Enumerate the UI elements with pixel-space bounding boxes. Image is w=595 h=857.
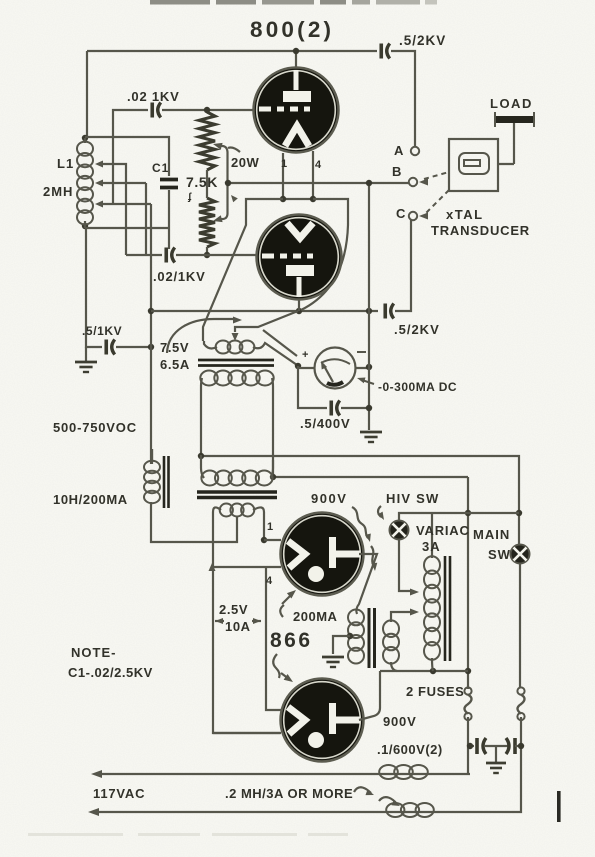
svg-text:10A: 10A: [225, 619, 251, 634]
svg-text:MAIN: MAIN: [473, 527, 510, 542]
svg-text:C1-.02/2.5KV: C1-.02/2.5KV: [68, 665, 153, 680]
svg-text:A: A: [394, 143, 404, 158]
svg-text:.5/2KV: .5/2KV: [399, 33, 446, 48]
svg-text:.5/400V: .5/400V: [300, 416, 350, 431]
svg-text:HIV SW: HIV SW: [386, 491, 439, 506]
svg-text:.5/2KV: .5/2KV: [394, 322, 440, 337]
svg-text:1: 1: [281, 158, 287, 170]
svg-text:900V: 900V: [383, 714, 417, 729]
svg-text:-0-300MA DC: -0-300MA DC: [378, 380, 457, 394]
svg-text:xTAL: xTAL: [446, 207, 484, 222]
svg-text:1: 1: [267, 521, 273, 533]
svg-text:L1: L1: [57, 156, 74, 171]
svg-text:7.5K: 7.5K: [186, 174, 218, 190]
svg-text:7.5V: 7.5V: [160, 340, 189, 355]
svg-text:C1: C1: [152, 161, 169, 175]
svg-text:800(2): 800(2): [250, 17, 334, 42]
svg-text:2.5V: 2.5V: [219, 602, 248, 617]
svg-text:4: 4: [315, 159, 322, 171]
svg-text:500-750VOC: 500-750VOC: [53, 420, 137, 435]
svg-text:LOAD: LOAD: [490, 96, 533, 111]
svg-text:C: C: [396, 206, 406, 221]
svg-text:.2 MH/3A OR MORE: .2 MH/3A OR MORE: [225, 786, 353, 801]
svg-text:ʄ: ʄ: [187, 192, 192, 203]
svg-text:117VAC: 117VAC: [93, 786, 145, 801]
svg-text:NOTE-: NOTE-: [71, 645, 116, 660]
svg-text:6.5A: 6.5A: [160, 357, 190, 372]
svg-text:SW: SW: [488, 547, 511, 562]
svg-text:.02 1KV: .02 1KV: [127, 89, 180, 104]
svg-text:3A: 3A: [422, 539, 441, 554]
svg-text:VARIAC: VARIAC: [416, 523, 470, 538]
svg-text:866: 866: [270, 629, 313, 652]
svg-text:2 FUSES: 2 FUSES: [406, 684, 464, 699]
svg-text:900V: 900V: [311, 491, 347, 506]
svg-text:4: 4: [266, 575, 273, 587]
svg-text:TRANSDUCER: TRANSDUCER: [431, 223, 530, 238]
svg-text:2MH: 2MH: [43, 184, 73, 199]
svg-text:10H/200MA: 10H/200MA: [53, 492, 128, 507]
svg-text:20W: 20W: [231, 155, 259, 170]
svg-text:200MA: 200MA: [293, 609, 338, 624]
svg-text:.5/1KV: .5/1KV: [82, 324, 122, 338]
svg-text:.1/600V(2): .1/600V(2): [377, 742, 443, 757]
svg-text:.02/1KV: .02/1KV: [153, 269, 206, 284]
svg-text:+: +: [302, 349, 308, 361]
svg-text:B: B: [392, 164, 401, 179]
